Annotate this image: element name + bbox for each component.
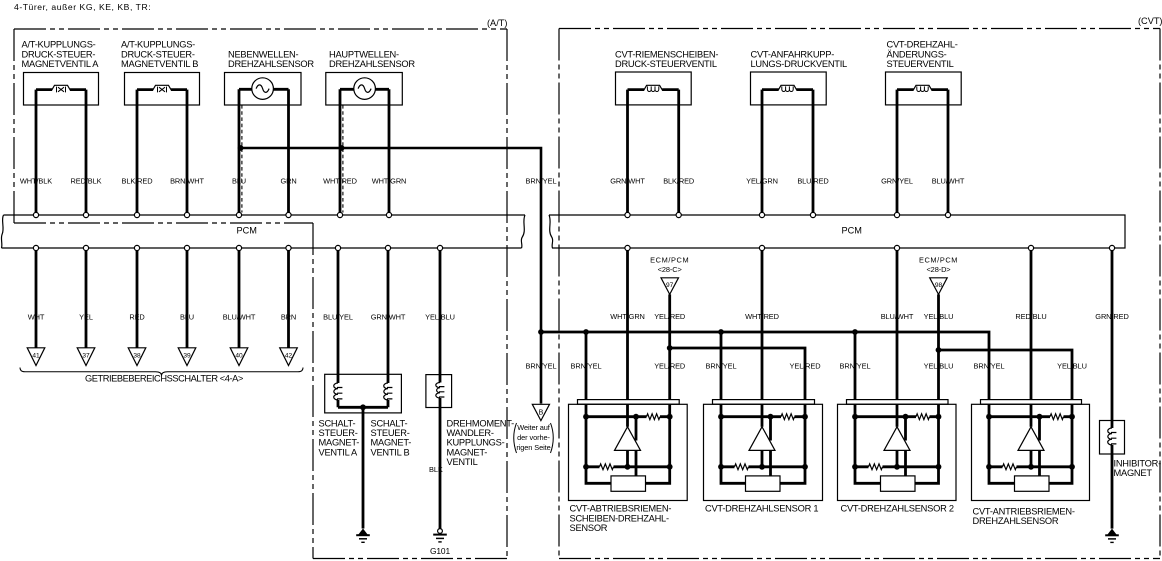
shift control solenoid valves box [325, 374, 402, 413]
svg-text:BLU/YEL: BLU/YEL [323, 312, 353, 321]
svg-text:4-Türer, außer KG, KE, KB, TR:: 4-Türer, außer KG, KE, KB, TR: [14, 2, 151, 12]
PCM box (A/T side) [4, 214, 526, 216]
wire GRN [287, 89, 290, 212]
svg-text:VENTIL B: VENTIL B [371, 447, 410, 457]
svg-text:STEUER-: STEUER- [371, 428, 410, 438]
svg-text:GRN: GRN [280, 176, 296, 185]
PCM terminals bottom [33, 245, 38, 250]
svg-text:SCHALT-: SCHALT- [371, 418, 408, 428]
svg-text:RED/BLU: RED/BLU [1015, 312, 1046, 321]
CVT speed sensor 2 sensing element [881, 476, 916, 491]
svg-text:DREHZAHLSENSOR: DREHZAHLSENSOR [973, 516, 1059, 526]
svg-text:YEL/BLU: YEL/BLU [425, 312, 455, 321]
svg-text:DRUCK-STEUERVENTIL: DRUCK-STEUERVENTIL [615, 59, 717, 69]
svg-text:BRN/YEL: BRN/YEL [840, 362, 871, 371]
CVT output pulley speed sensor box [569, 404, 688, 500]
wire YEL/BLU from 28-D [937, 294, 940, 416]
svg-text:BRN/YEL: BRN/YEL [706, 362, 737, 371]
svg-text:LUNGS-DRUCKVENTIL: LUNGS-DRUCKVENTIL [751, 59, 848, 69]
CVT output pulley speed sensor internal circuit [586, 415, 670, 418]
wire BLK/RED (CVT) [677, 90, 680, 213]
wire RED to range switch [136, 251, 139, 348]
svg-text:BRN/YEL: BRN/YEL [571, 362, 602, 371]
svg-text:BRN/YEL: BRN/YEL [526, 362, 557, 371]
svg-text:YEL/BLU: YEL/BLU [1057, 362, 1087, 371]
countershaft speed sensor box [225, 73, 302, 106]
wire GRN/WHT [387, 251, 390, 383]
CVT speed sensor 1 junction dots [718, 414, 724, 420]
countershaft speed sensor internal wires [239, 88, 289, 91]
svg-text:37: 37 [82, 353, 90, 360]
CVT output pulley speed sensor sensing element [611, 476, 646, 491]
svg-text:BLU: BLU [232, 176, 246, 185]
svg-text:STEUER-: STEUER- [319, 428, 358, 438]
wire BLU/WHT (sensor) [896, 251, 899, 427]
svg-text:YEL/GRN: YEL/GRN [746, 176, 778, 185]
svg-text:BLU/WHT: BLU/WHT [932, 176, 965, 185]
svg-text:CVT-DREHZAHL-: CVT-DREHZAHL- [887, 40, 958, 50]
CVT input pulley speed sensor amplifier triangle [1018, 427, 1044, 451]
PCM terminals top [33, 212, 38, 217]
svg-text:BLK: BLK [429, 465, 443, 474]
CVT input pulley speed sensor shield bar [981, 400, 1082, 405]
svg-text:BLU: BLU [180, 312, 194, 321]
svg-text:DREHZAHLSENSOR: DREHZAHLSENSOR [228, 59, 314, 69]
CVT speed sensor 2 amplifier triangle [884, 427, 910, 451]
connector terminal 39 [178, 348, 196, 366]
wire YEL to range switch [85, 251, 88, 348]
connector terminal 41 [27, 348, 45, 366]
BRN/YEL shield bus (CVT) [541, 332, 989, 417]
wire YEL/BLU branch to sensor 4 [939, 350, 1073, 417]
CVT speed change control valve winding [897, 88, 948, 91]
svg-text:VENTIL A: VENTIL A [319, 447, 359, 457]
connector terminal 42 [280, 348, 298, 366]
svg-text:RED: RED [129, 312, 144, 321]
svg-text:PCM: PCM [237, 226, 257, 236]
svg-text:SCHEIBEN-DREHZAHL-: SCHEIBEN-DREHZAHL- [570, 513, 669, 523]
svg-text:STEUERVENTIL: STEUERVENTIL [887, 59, 954, 69]
CVT output pulley speed sensor shield bar [578, 400, 680, 405]
CVT input pulley speed sensor box [972, 404, 1090, 500]
CVT speed sensor 2 box [838, 404, 957, 500]
ground (inhibitor) [1107, 529, 1116, 535]
svg-text:BRN: BRN [281, 312, 296, 321]
coil solenoid B [384, 383, 388, 400]
svg-text:SENSOR: SENSOR [570, 523, 608, 533]
solenoid common return [338, 400, 388, 529]
CVT speed change control valve box [886, 72, 962, 105]
wire WHT to range switch [35, 251, 38, 348]
junction shield NEBENWELLEN [238, 145, 244, 151]
mainshaft speed sensor AC generator symbol [354, 78, 376, 100]
wire BLU/WHT to range switch [238, 251, 241, 348]
svg-text:GRN/RED: GRN/RED [1095, 312, 1128, 321]
wire WHT/RED [339, 89, 342, 212]
CVT output pulley speed sensor junction dots [583, 414, 589, 420]
wire YEL/RED branch to sensor 2 [670, 348, 805, 417]
svg-text:GRN/YEL: GRN/YEL [881, 176, 913, 185]
PCM box (CVT side) [549, 215, 1125, 248]
svg-text:CVT-DREHZAHLSENSOR 1: CVT-DREHZAHLSENSOR 1 [705, 504, 818, 514]
wire RED/BLU [1030, 251, 1033, 427]
wire BLK/RED [136, 90, 139, 213]
wire YEL/BLU [439, 251, 442, 383]
wire BRN to range switch [287, 251, 290, 348]
svg-text:BRN/WHT: BRN/WHT [170, 176, 204, 185]
svg-text:HAUPTWELLEN-: HAUPTWELLEN- [329, 49, 399, 59]
shield drain dashed wire (NEBENWELLEN) [241, 105, 243, 213]
svg-text:SCHALT-: SCHALT- [319, 418, 356, 428]
countershaft speed sensor AC generator symbol [252, 78, 274, 100]
svg-text:der vorhe-: der vorhe- [517, 433, 550, 442]
svg-text:YEL/RED: YEL/RED [790, 362, 821, 371]
CVT speed sensor 1 internal circuit [721, 415, 805, 418]
wire BLU to range switch [186, 251, 189, 348]
svg-text:Weiter auf: Weiter auf [517, 423, 551, 432]
CVT input pulley speed sensor internal circuit [989, 415, 1072, 418]
svg-text:MAGNETVENTIL B: MAGNETVENTIL B [121, 59, 198, 69]
CVT input pulley speed sensor junction dots [986, 414, 992, 420]
svg-text:WHT/GRN: WHT/GRN [372, 176, 407, 185]
svg-text:BLK/RED: BLK/RED [663, 176, 694, 185]
wire YEL/RED from 28-C [668, 294, 671, 416]
svg-text:GRN/WHT: GRN/WHT [371, 312, 406, 321]
svg-text:RED/BLK: RED/BLK [71, 176, 102, 185]
svg-text:<28-C>: <28-C> [658, 265, 682, 274]
svg-text:DRUCK-STEUER-: DRUCK-STEUER- [121, 49, 195, 59]
svg-text:(CVT): (CVT) [1138, 16, 1162, 26]
svg-text:BLK/RED: BLK/RED [122, 176, 153, 185]
wire GRN/YEL [896, 90, 899, 213]
svg-text:NEBENWELLEN-: NEBENWELLEN- [228, 49, 299, 59]
svg-text:CVT-ABTRIEBSRIEMEN-: CVT-ABTRIEBSRIEMEN- [570, 504, 672, 514]
A/T clutch pressure control solenoid valve A box [24, 73, 99, 106]
wire GRN/RED [1111, 251, 1114, 529]
svg-text:G101: G101 [430, 546, 451, 556]
svg-text:WHT/BLK: WHT/BLK [20, 176, 52, 185]
CVT speed sensor 2 shield bar [847, 400, 949, 405]
wire GRN/WHT (CVT) [626, 90, 629, 213]
svg-text:rigen Seite: rigen Seite [516, 443, 550, 452]
svg-text:ECM/PCM: ECM/PCM [650, 255, 689, 264]
inhibitor coil [1108, 428, 1112, 445]
ground (shift solenoids) [358, 529, 367, 535]
svg-text:ECM/PCM: ECM/PCM [919, 255, 958, 264]
svg-text:B: B [539, 410, 544, 417]
BRN/YEL drops to sensors [585, 332, 588, 417]
svg-text:WHT: WHT [28, 312, 45, 321]
CVT speed sensor 2 internal circuit [855, 415, 939, 418]
svg-text:GRN/WHT: GRN/WHT [610, 176, 645, 185]
junction shield HAUPTWELLEN [339, 145, 345, 151]
brace (range switch) [20, 368, 303, 376]
CVT speed sensor 1 box [704, 404, 823, 500]
svg-text:98: 98 [935, 282, 943, 289]
svg-text:A/T-KUPPLUNGS-: A/T-KUPPLUNGS- [121, 40, 195, 50]
svg-text:VENTIL: VENTIL [447, 457, 478, 467]
svg-text:(A/T): (A/T) [487, 18, 507, 28]
svg-text:WHT/RED: WHT/RED [323, 176, 357, 185]
svg-text:INHIBITOR-: INHIBITOR- [1114, 459, 1162, 469]
wire RED/BLK [85, 90, 88, 213]
svg-text:39: 39 [183, 353, 191, 360]
mainshaft speed sensor box [326, 73, 403, 106]
svg-text:GETRIEBEBEREICHSSCHALTER <4-A>: GETRIEBEBEREICHSSCHALTER <4-A> [85, 374, 243, 384]
CVT input pulley speed sensor sensing element [1015, 476, 1050, 491]
svg-text:YEL/RED: YEL/RED [654, 312, 685, 321]
svg-text:DRUCK-STEUER-: DRUCK-STEUER- [22, 49, 96, 59]
torque converter clutch solenoid box [426, 375, 452, 408]
wire BRN/WHT [186, 90, 189, 213]
svg-text:BRN/YEL: BRN/YEL [974, 362, 1005, 371]
wire BLU [238, 89, 241, 212]
svg-text:DREHZAHLSENSOR: DREHZAHLSENSOR [329, 59, 415, 69]
A/T clutch pressure control solenoid valve B winding [137, 88, 187, 91]
CVT pulley pressure control valve winding [628, 88, 679, 91]
CVT pulley pressure control valve box [616, 72, 692, 105]
svg-text:KUPPLUNGS-: KUPPLUNGS- [447, 438, 505, 448]
svg-text:CVT-ANTRIEBSRIEMEN-: CVT-ANTRIEBSRIEMEN- [973, 507, 1075, 517]
PCM terminals top (CVT) [625, 212, 630, 217]
wire YEL/GRN [761, 90, 764, 213]
mainshaft speed sensor internal wires [340, 88, 389, 91]
svg-text:PCM: PCM [842, 226, 862, 236]
CVT speed sensor 1 amplifier triangle [749, 427, 775, 451]
connector terminal 37 [77, 348, 95, 366]
svg-text:ÄNDERUNGS-: ÄNDERUNGS- [887, 49, 947, 59]
svg-text:YEL/BLU: YEL/BLU [924, 362, 954, 371]
wire WHT/BLK [35, 90, 38, 213]
svg-text:MAGNET-: MAGNET- [371, 438, 412, 448]
svg-text:MAGNET: MAGNET [1114, 468, 1153, 478]
svg-text:40: 40 [235, 353, 243, 360]
svg-text:CVT-DREHZAHLSENSOR 2: CVT-DREHZAHLSENSOR 2 [841, 504, 954, 514]
CVT speed sensor 1 sensing element [746, 476, 781, 491]
svg-text:DREHMOMENT-: DREHMOMENT- [447, 418, 515, 428]
CVT start clutch pressure valve box [751, 72, 827, 105]
CVT output pulley speed sensor amplifier triangle [615, 427, 641, 451]
svg-text:38: 38 [133, 353, 141, 360]
inhibitor solenoid box [1100, 421, 1125, 455]
CVT speed sensor 2 junction dots [852, 414, 858, 420]
ground G101 [438, 529, 443, 534]
junction BRN/YEL to CVT shield bus [538, 329, 544, 335]
svg-text:BLU/WHT: BLU/WHT [881, 312, 914, 321]
svg-text:YEL/RED: YEL/RED [654, 362, 685, 371]
svg-text:CVT-RIEMENSCHEIBEN-: CVT-RIEMENSCHEIBEN- [615, 49, 718, 59]
PCM terminals bottom (CVT) [625, 245, 630, 250]
svg-text:MAGNET-: MAGNET- [447, 447, 488, 457]
shield bus wire to BRN/YEL [241, 148, 541, 404]
svg-text:CVT-ANFAHRKUPP-: CVT-ANFAHRKUPP- [751, 49, 835, 59]
svg-text:WHT/RED: WHT/RED [745, 312, 779, 321]
connector terminal 38 [128, 348, 146, 366]
svg-text:YEL/BLU: YEL/BLU [924, 312, 954, 321]
wire BLK to G101 [439, 398, 442, 529]
CVT system dashed boundary [559, 28, 1160, 30]
A/T system dashed boundary [14, 28, 507, 30]
wire BLU/RED [812, 90, 815, 213]
svg-text:MAGNET-: MAGNET- [319, 438, 360, 448]
shield drain dashed wire (HAUPTWELLEN) [342, 105, 344, 213]
CVT speed sensor 1 shield bar [713, 400, 815, 405]
svg-text:97: 97 [666, 282, 674, 289]
connector terminal 40 [230, 348, 248, 366]
wire WHT/GRN [388, 89, 391, 212]
svg-text:BLU/WHT: BLU/WHT [223, 312, 256, 321]
svg-text:41: 41 [32, 353, 40, 360]
svg-text:WHT/GRN: WHT/GRN [610, 312, 645, 321]
svg-text:A/T-KUPPLUNGS-: A/T-KUPPLUNGS- [22, 40, 96, 50]
wire BLU/YEL [337, 251, 340, 383]
svg-text:42: 42 [285, 353, 293, 360]
coil solenoid A [334, 383, 338, 400]
svg-text:<28-D>: <28-D> [926, 265, 950, 274]
A/T clutch pressure control solenoid valve A winding [36, 88, 86, 91]
svg-text:BLU/RED: BLU/RED [797, 176, 828, 185]
page connector B [532, 404, 549, 420]
CVT start clutch pressure valve winding [762, 88, 813, 91]
A/T clutch pressure control solenoid valve B box [125, 73, 200, 106]
svg-text:YEL: YEL [79, 312, 93, 321]
wire BLU/WHT (CVT) [947, 90, 950, 213]
wire WHT/RED (CVT) [761, 251, 764, 427]
svg-text:BRN/YEL: BRN/YEL [526, 176, 557, 185]
svg-text:WANDLER-: WANDLER- [447, 428, 494, 438]
coil torque converter solenoid [436, 383, 440, 399]
wire WHT/GRN (CVT) [626, 251, 629, 427]
svg-text:MAGNETVENTIL A: MAGNETVENTIL A [22, 59, 100, 69]
